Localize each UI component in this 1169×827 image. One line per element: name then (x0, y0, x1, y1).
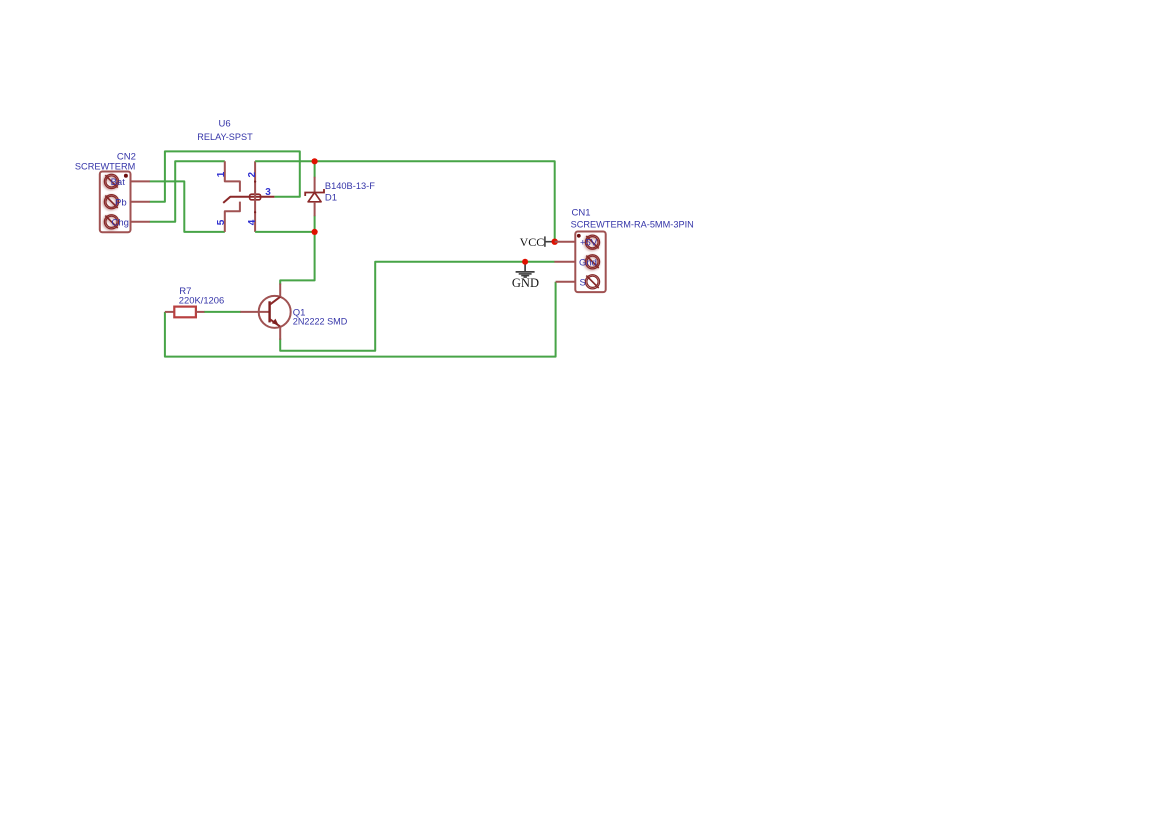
diode D1 cathode bar with schottky hooks (305, 189, 324, 196)
svg-text:1: 1 (216, 171, 227, 177)
relay U6 switch arm (223, 197, 274, 203)
transistor Q1 emitter diagonal (270, 319, 280, 326)
transistor Q1 base lead (240, 311, 269, 313)
svg-text:Chg: Chg (112, 218, 129, 229)
diode D1 top lead (314, 177, 316, 193)
svg-text:Gnd: Gnd (579, 258, 597, 269)
relay U6 label (197, 118, 253, 143)
CN2 pin lead Pb (131, 201, 151, 203)
svg-text:3: 3 (265, 187, 271, 198)
VCC supply symbol (520, 235, 555, 249)
junction dot at D1 anode / relay pin4 wire (312, 229, 318, 235)
wire net S: R7 left to CN1 S (165, 282, 556, 357)
svg-text:VCC: VCC (520, 235, 545, 249)
wire net R7 right to Q1 base (204, 311, 241, 313)
CN1 pin lead Gnd (554, 261, 575, 263)
junction dot at VCC (552, 239, 558, 245)
CN2 screw terminal pin 3 (Chg) (104, 215, 119, 230)
diode D1 bottom lead (314, 202, 316, 216)
connector CN1 body (575, 232, 605, 293)
svg-text:S: S (580, 278, 586, 289)
resistor R7 label (179, 286, 224, 307)
wire net Bat to relay pin5 (150, 181, 225, 232)
transistor Q1 base bar (268, 301, 270, 322)
svg-text:SCREWTERM-RA-5MM-3PIN: SCREWTERM-RA-5MM-3PIN (571, 219, 694, 230)
junction dot at GND (522, 259, 528, 265)
resistor R7 right lead (196, 311, 205, 313)
connector CN2 label (75, 152, 136, 173)
connector CN2 body (100, 172, 131, 233)
CN1 polarity dot (577, 234, 581, 238)
transistor Q1 label (293, 308, 348, 328)
resistor R7 left lead (165, 311, 174, 313)
transistor Q1 circle (259, 296, 291, 328)
svg-text:5: 5 (216, 219, 227, 225)
CN2 pin lead Chg (131, 221, 151, 223)
wire D1 cathode drop (314, 161, 316, 177)
svg-text:B140B-13-F: B140B-13-F (325, 181, 375, 192)
svg-text:220K/1206: 220K/1206 (179, 296, 224, 307)
svg-text:Bat: Bat (111, 177, 126, 188)
diode D1 triangle (308, 193, 321, 202)
svg-text:2N2222 SMD: 2N2222 SMD (293, 316, 348, 327)
CN2 polarity dot (124, 174, 128, 178)
CN2 pin lead Bat (131, 180, 151, 182)
transistor Q1 collector diagonal (270, 297, 280, 305)
junction dot at D1 cathode / VCC wire (312, 158, 318, 164)
transistor Q1 emitter arrow (272, 319, 279, 326)
CN1 pin lead S (556, 281, 576, 283)
diode D1 label (325, 181, 375, 203)
transistor Q1 collector lead (279, 284, 281, 297)
wire D1 anode rise (314, 216, 316, 232)
connector CN1 label (571, 207, 694, 230)
CN1 pin lead +5V (555, 241, 576, 243)
relay U6 pin marker dots (254, 181, 256, 214)
wire net Pb to relay pin3 (150, 151, 300, 201)
svg-text:2: 2 (247, 172, 258, 178)
relay U6 pin 1 lead (225, 161, 240, 191)
svg-text:GND: GND (512, 276, 539, 290)
CN1 screw terminal pin S (585, 275, 599, 289)
relay U6 pin 2-4 coil line (254, 161, 256, 232)
wire net VCC: relay pin2 to D1 cathode to CN1 +5V (255, 161, 555, 241)
CN1 screw terminal pin +5V (585, 235, 600, 250)
relay U6 pin 5 lead (225, 202, 240, 232)
CN2 screw terminal pin 1 (Bat) (104, 174, 119, 189)
CN1 screw terminal pin Gnd (585, 255, 600, 270)
transistor Q1 emitter lead (279, 327, 281, 340)
svg-text:CN1: CN1 (572, 207, 591, 218)
relay U6 coil box (250, 194, 261, 200)
GND supply symbol (512, 262, 539, 290)
svg-text:Pb: Pb (115, 197, 127, 208)
resistor R7 body (174, 307, 196, 318)
CN2 screw terminal pin 2 (Pb) (104, 195, 119, 210)
svg-text:U6: U6 (219, 118, 231, 129)
wire net relay pin4 to D1 anode (255, 231, 315, 233)
wire net GND: Q1 emitter to CN1 Gnd (280, 262, 554, 351)
svg-text:D1: D1 (325, 192, 337, 203)
wire net Chg to relay pin1 (150, 161, 225, 222)
svg-text:+5V: +5V (580, 238, 598, 249)
wire net D1 anode to Q1 collector (280, 232, 314, 285)
svg-text:RELAY-SPST: RELAY-SPST (197, 132, 253, 143)
svg-text:4: 4 (247, 219, 258, 225)
